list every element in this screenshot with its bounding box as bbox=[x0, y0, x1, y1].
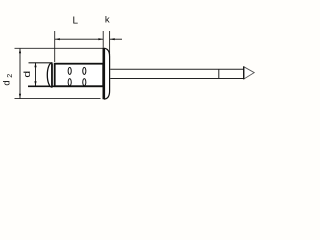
svg-text:L: L bbox=[73, 16, 79, 27]
svg-text:d: d bbox=[22, 71, 33, 78]
svg-text:k: k bbox=[105, 15, 110, 26]
svg-text:d2: d2 bbox=[2, 71, 15, 85]
